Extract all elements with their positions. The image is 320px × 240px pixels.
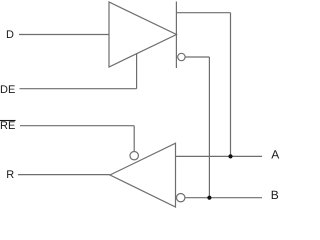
- junction dot on B: [207, 196, 211, 200]
- wire RE vertical down to enable bubble: [133, 126, 135, 152]
- wire D input: [19, 34, 109, 36]
- wire noninverting output horizontal to corner: [176, 12, 230, 14]
- wire DE vertical to driver: [136, 53, 138, 88]
- svg-text:B: B: [271, 188, 279, 202]
- inversion bubble driver output: [178, 53, 185, 60]
- enable bubble on receiver: [130, 152, 138, 160]
- wire DE horizontal: [20, 88, 137, 90]
- svg-text:DE: DE: [0, 84, 15, 96]
- wire RE horizontal: [20, 125, 134, 127]
- wire line B: [185, 197, 262, 199]
- wire inverting output vertical down to B: [208, 57, 210, 198]
- svg-text:R: R: [6, 169, 14, 181]
- wire R output: [18, 174, 110, 176]
- junction dot on A: [228, 154, 232, 158]
- receiver R1 (triangle buffer pointing left): [110, 143, 176, 207]
- overline for RE: [0, 120, 16, 122]
- wire inverting output horizontal to corner: [185, 56, 209, 58]
- wire driver output vertical bus: [175, 2, 177, 69]
- wire line A: [176, 155, 263, 157]
- inversion bubble receiver B input: [177, 194, 185, 202]
- wire noninverting output vertical down to A: [230, 13, 232, 157]
- svg-text:A: A: [271, 148, 279, 162]
- driver D1 (triangle buffer): [109, 2, 177, 67]
- svg-text:D: D: [6, 29, 14, 41]
- svg-text:RE: RE: [0, 120, 15, 132]
